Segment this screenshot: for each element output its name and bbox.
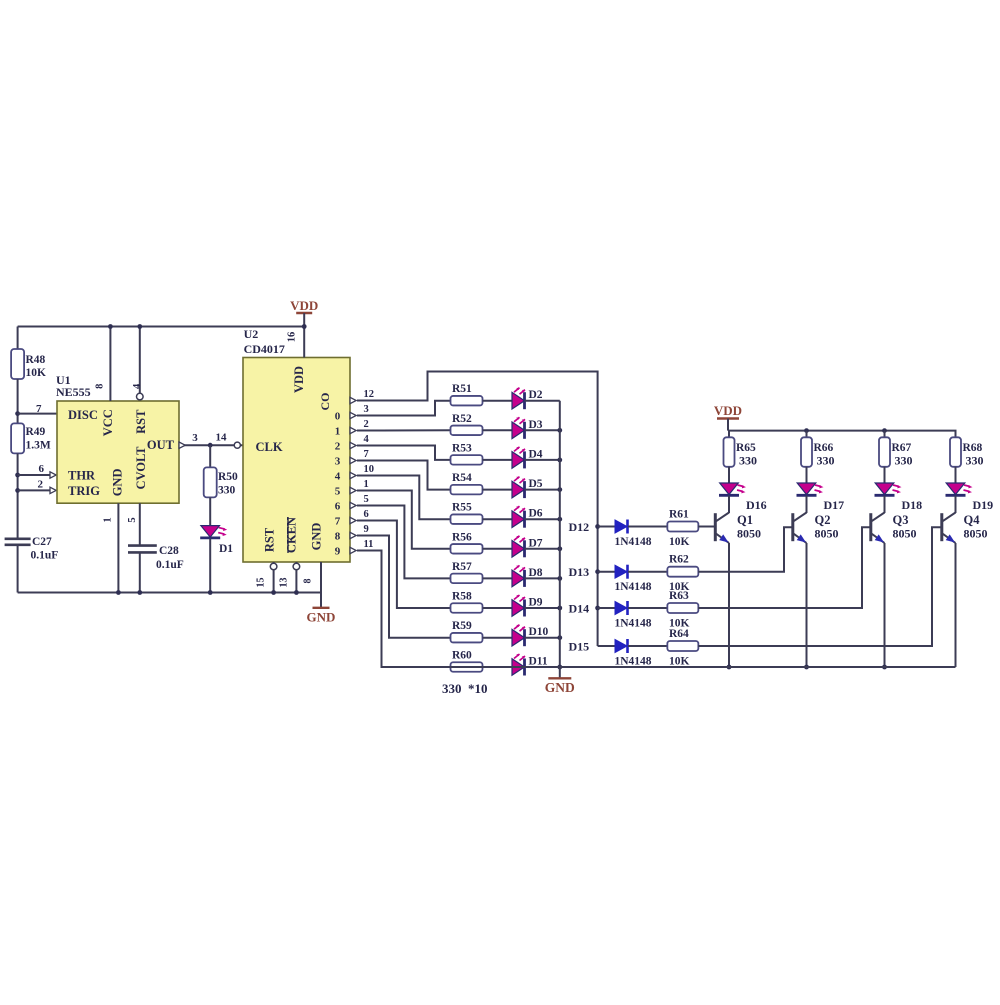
- resistor R64: [667, 641, 698, 651]
- wire rail to R66: [806, 431, 808, 438]
- input marker CLK bubble: [234, 442, 240, 448]
- wire VDD collector rail: [728, 431, 956, 438]
- svg-text:D11: D11: [529, 656, 548, 668]
- wire R57 to LED D8: [483, 577, 512, 579]
- svg-text:D13: D13: [569, 565, 590, 579]
- svg-text:CO: CO: [318, 393, 332, 411]
- transistor Q4 8050: [940, 513, 943, 541]
- svg-text:CKEN: CKEN: [285, 517, 299, 553]
- LED D1: [201, 526, 220, 538]
- svg-text:D5: D5: [529, 478, 543, 490]
- junction GND pin1 rail: [116, 590, 121, 595]
- wire R62 to Q2 base: [698, 527, 793, 572]
- svg-text:330 *10: 330 *10: [442, 681, 488, 696]
- input marker CLK arrow: [244, 442, 250, 449]
- resistor R68: [950, 437, 961, 467]
- svg-text:5: 5: [364, 494, 369, 505]
- resistor R48: [11, 349, 24, 379]
- svg-text:D14: D14: [569, 602, 590, 616]
- wire D1 to ground rail: [209, 539, 211, 593]
- svg-text:D19: D19: [973, 498, 994, 512]
- wire R65 to LED D16: [728, 467, 730, 483]
- wire left rail upper segment: [17, 327, 19, 350]
- junction D7 bus: [557, 546, 562, 551]
- wire bus to diode D12: [598, 526, 615, 528]
- svg-text:R59: R59: [452, 620, 472, 632]
- output marker U2 row 6: [350, 487, 356, 493]
- svg-text:THR: THR: [68, 469, 96, 483]
- junction emitter Q2 rail: [804, 665, 809, 670]
- svg-text:3: 3: [364, 404, 369, 415]
- junction D4 bus: [557, 458, 562, 463]
- junction cathode bus bottom rail: [557, 665, 562, 670]
- svg-text:330: 330: [817, 454, 835, 468]
- resistor R54: [451, 485, 483, 495]
- wire R50 to D1: [209, 497, 211, 525]
- svg-text:1N4148: 1N4148: [615, 656, 652, 668]
- wire RST pin 4 to rail: [139, 327, 141, 394]
- svg-text:NE555: NE555: [56, 385, 91, 399]
- resistor R57: [451, 574, 483, 584]
- resistor R61: [667, 522, 698, 532]
- output marker U2 row 2: [350, 427, 356, 433]
- svg-text:5: 5: [335, 485, 341, 497]
- wire rail to R67: [884, 431, 886, 438]
- wire D3 to cathode bus: [525, 429, 560, 431]
- output marker U2 row 10: [350, 547, 356, 553]
- wire R61 to Q1 base: [698, 526, 715, 528]
- wire diode to R61: [628, 526, 668, 528]
- junction D1 ground: [208, 590, 213, 595]
- svg-text:10K: 10K: [26, 367, 47, 379]
- junction RST rail: [137, 324, 142, 329]
- svg-text:VDD: VDD: [292, 366, 306, 393]
- svg-text:0.1uF: 0.1uF: [31, 550, 59, 562]
- resistor R65: [724, 437, 735, 467]
- svg-text:7: 7: [36, 403, 42, 415]
- wire CO to diode bus: [357, 372, 598, 527]
- svg-text:R61: R61: [669, 509, 689, 521]
- svg-text:15: 15: [256, 578, 267, 588]
- LED D6: [512, 511, 525, 528]
- svg-text:10: 10: [364, 464, 375, 475]
- resistor R51: [451, 396, 483, 406]
- svg-text:R58: R58: [452, 591, 472, 603]
- svg-text:D4: D4: [529, 448, 543, 460]
- junction emitter Q3 rail: [882, 665, 887, 670]
- capacitor C28: [128, 544, 157, 547]
- wire R68 to LED D19: [955, 467, 957, 483]
- svg-text:Q2: Q2: [815, 513, 831, 527]
- wire VCC pin 8 to rail: [109, 327, 111, 402]
- junction VCC rail: [108, 324, 113, 329]
- resistor R50: [204, 467, 217, 497]
- wire CVOLT pin 5 to C28: [139, 503, 141, 545]
- output marker U2 row 8: [350, 517, 356, 523]
- wire C27 to ground rail: [17, 545, 19, 593]
- junction C28 rail: [137, 590, 142, 595]
- diode D14 1N4148: [615, 602, 627, 615]
- transistor Q3 8050: [869, 513, 872, 541]
- svg-text:330: 330: [895, 454, 913, 468]
- junction bus D13: [595, 569, 600, 574]
- input marker TRIG: [50, 487, 56, 493]
- wire bottom ground rail: [18, 592, 321, 594]
- svg-text:8050: 8050: [893, 527, 917, 541]
- wire LED to Q2 collector: [806, 496, 808, 513]
- svg-text:5: 5: [127, 517, 138, 522]
- svg-text:D1: D1: [219, 543, 233, 555]
- wire R53 to LED D4: [483, 459, 512, 461]
- wire U2 output 8 to R59: [357, 536, 450, 638]
- wire R63 to Q3 base: [698, 527, 871, 608]
- resistor R49: [11, 423, 24, 453]
- wire R66 to LED D17: [806, 467, 808, 483]
- svg-text:R68: R68: [963, 442, 983, 454]
- svg-text:D16: D16: [746, 498, 767, 512]
- svg-text:2: 2: [38, 479, 44, 491]
- wire R55 to LED D6: [483, 518, 512, 520]
- wire D2 to cathode bus: [525, 400, 560, 402]
- svg-text:1.3M: 1.3M: [26, 440, 51, 452]
- LED D18: [875, 483, 894, 495]
- junction rail R66: [804, 428, 809, 433]
- svg-text:11: 11: [364, 539, 374, 550]
- LED D17: [797, 483, 816, 495]
- svg-text:2: 2: [335, 440, 341, 452]
- bubble RST pin 4: [137, 393, 144, 400]
- node junction THR: [15, 473, 20, 478]
- svg-text:RST: RST: [134, 409, 148, 434]
- resistor R58: [451, 603, 483, 613]
- transistor Q2 8050: [791, 513, 794, 541]
- wire Q3 emitter to ground rail: [884, 543, 886, 667]
- svg-text:0: 0: [335, 410, 341, 422]
- output marker U2 row 5: [350, 472, 356, 478]
- wire bottom emitter rail: [382, 666, 956, 668]
- svg-text:CD4017: CD4017: [244, 342, 285, 356]
- LED D3: [512, 422, 525, 439]
- svg-text:R56: R56: [452, 531, 472, 543]
- bubble CKEN pin13: [293, 563, 300, 570]
- junction CKEN rail: [294, 590, 299, 595]
- wire LED to Q3 collector: [884, 496, 886, 513]
- svg-text:8050: 8050: [737, 527, 761, 541]
- svg-text:10K: 10K: [669, 656, 690, 668]
- svg-text:OUT: OUT: [147, 438, 175, 452]
- wire rail to R68: [955, 431, 957, 438]
- resistor R60: [451, 662, 483, 672]
- svg-text:1: 1: [364, 479, 369, 490]
- svg-text:9: 9: [335, 545, 341, 557]
- svg-text:R63: R63: [669, 590, 689, 602]
- junction D5 bus: [557, 487, 562, 492]
- wire R60 to LED D11: [483, 666, 512, 668]
- resistor R56: [451, 544, 483, 554]
- wire Q2 emitter to ground rail: [806, 543, 808, 667]
- LED D8: [512, 570, 525, 587]
- counter U2 CD4017 body: [243, 358, 350, 563]
- input marker THR: [50, 472, 56, 478]
- junction D6 bus: [557, 517, 562, 522]
- wire bus to diode D15: [598, 645, 615, 647]
- wire D9 to cathode bus: [525, 607, 560, 609]
- svg-text:13: 13: [279, 578, 290, 588]
- svg-text:R60: R60: [452, 650, 472, 662]
- wire diode to R64: [628, 645, 668, 647]
- svg-text:330: 330: [739, 454, 757, 468]
- svg-text:7: 7: [335, 515, 341, 527]
- wire GND pin 1: [117, 503, 119, 592]
- svg-text:R49: R49: [26, 426, 46, 438]
- wire D10 to cathode bus: [525, 637, 560, 639]
- output marker U2 row 4: [350, 457, 356, 463]
- svg-text:D7: D7: [529, 537, 543, 549]
- LED D10: [512, 629, 525, 646]
- svg-text:4: 4: [364, 434, 370, 445]
- wire C28 to ground rail: [139, 552, 141, 592]
- wire THR pin 6: [18, 474, 50, 476]
- svg-text:VCC: VCC: [101, 409, 115, 436]
- wire U2 output 4 to R55: [357, 476, 450, 520]
- wire R48 to node DISC: [17, 379, 19, 423]
- LED D9: [512, 600, 525, 617]
- svg-text:D6: D6: [529, 508, 543, 520]
- svg-text:GND: GND: [310, 523, 324, 551]
- LED D4: [512, 452, 525, 469]
- LED D16: [720, 483, 739, 495]
- svg-text:16: 16: [287, 332, 298, 343]
- svg-text:D2: D2: [529, 389, 543, 401]
- junction emitter Q1 rail: [727, 665, 732, 670]
- junction D10 bus: [557, 635, 562, 640]
- wire bus to diode D14: [598, 607, 615, 609]
- wire Q1 emitter to ground rail: [728, 543, 730, 667]
- wire R49 to C27: [17, 453, 19, 538]
- svg-text:D12: D12: [569, 520, 590, 534]
- svg-text:D18: D18: [902, 498, 923, 512]
- svg-text:8: 8: [303, 579, 314, 584]
- svg-text:0.1uF: 0.1uF: [156, 559, 184, 571]
- junction bus D14: [595, 606, 600, 611]
- svg-text:4: 4: [335, 470, 341, 482]
- svg-text:1N4148: 1N4148: [615, 581, 652, 593]
- svg-text:Q3: Q3: [893, 513, 909, 527]
- svg-text:1: 1: [103, 517, 114, 522]
- svg-text:6: 6: [39, 463, 45, 475]
- svg-text:9: 9: [364, 524, 369, 535]
- LED D5: [512, 481, 525, 498]
- output marker U2 row 7: [350, 502, 356, 508]
- junction D8 bus: [557, 576, 562, 581]
- wire D4 to cathode bus: [525, 459, 560, 461]
- svg-text:3: 3: [192, 432, 198, 444]
- junction bus D12: [595, 524, 600, 529]
- node junction pin7: [15, 411, 20, 416]
- output marker OUT: [179, 442, 185, 448]
- wire TRIG pin 2: [18, 489, 50, 491]
- svg-text:R48: R48: [26, 354, 46, 366]
- svg-text:R53: R53: [452, 442, 472, 454]
- wire R51 to LED D2: [483, 400, 512, 402]
- junction D3 bus: [557, 428, 562, 433]
- wire R58 to LED D9: [483, 607, 512, 609]
- wire OUT pin3 to CLK pin14: [179, 444, 243, 446]
- wire R54 to LED D5: [483, 489, 512, 491]
- wire U2 output 0 to R51: [357, 401, 450, 416]
- wire D5 to cathode bus: [525, 489, 560, 491]
- svg-text:R66: R66: [814, 442, 834, 454]
- svg-text:GND: GND: [111, 469, 125, 497]
- svg-text:U2: U2: [244, 327, 259, 341]
- wire diode to R63: [628, 607, 668, 609]
- svg-text:10K: 10K: [669, 536, 690, 548]
- timer IC U1 NE555 body: [57, 401, 179, 503]
- LED D7: [512, 541, 525, 558]
- svg-text:R54: R54: [452, 472, 472, 484]
- svg-text:8050: 8050: [964, 527, 988, 541]
- resistor R63: [667, 603, 698, 613]
- wire top supply rail: [18, 326, 305, 328]
- svg-text:12: 12: [364, 389, 375, 400]
- wire R67 to LED D18: [884, 467, 886, 483]
- wire R59 to LED D10: [483, 637, 512, 639]
- svg-text:8: 8: [94, 384, 105, 389]
- wire D7 to cathode bus: [525, 548, 560, 550]
- wire GND pin8 stem: [320, 562, 322, 593]
- wire D8 to cathode bus: [525, 577, 560, 579]
- svg-text:D8: D8: [529, 567, 543, 579]
- wire R56 to LED D7: [483, 548, 512, 550]
- svg-text:R64: R64: [669, 628, 689, 640]
- svg-text:R67: R67: [892, 442, 912, 454]
- svg-text:8050: 8050: [815, 527, 839, 541]
- svg-text:D3: D3: [529, 419, 543, 431]
- wire RST pin15 stem: [273, 562, 275, 593]
- svg-text:D9: D9: [529, 597, 543, 609]
- svg-text:R62: R62: [669, 554, 689, 566]
- svg-text:CLK: CLK: [256, 440, 283, 454]
- svg-text:Q1: Q1: [737, 513, 753, 527]
- resistor R67: [879, 437, 890, 467]
- ground symbol LED bus: [559, 667, 561, 678]
- LED D19: [946, 483, 965, 495]
- ground symbol U2: [320, 593, 322, 608]
- svg-text:7: 7: [364, 449, 369, 460]
- resistor R62: [667, 567, 698, 577]
- svg-text:TRIG: TRIG: [68, 484, 100, 498]
- wire rail to R65: [728, 431, 730, 438]
- wire LED to Q4 collector: [955, 496, 957, 513]
- wire diode to R62: [628, 571, 668, 573]
- output marker U2 row 1: [350, 412, 356, 418]
- transistor Q1 8050: [714, 513, 717, 541]
- resistor R53: [451, 455, 483, 465]
- junction VDD rail: [302, 324, 307, 329]
- node junction TRIG: [15, 488, 20, 493]
- svg-text:8: 8: [335, 530, 341, 542]
- svg-text:R57: R57: [452, 561, 472, 573]
- wire DISC pin 7: [18, 413, 57, 415]
- svg-text:330: 330: [966, 454, 984, 468]
- svg-text:330: 330: [218, 485, 236, 497]
- output marker U2 row 3: [350, 442, 356, 448]
- junction D9 bus: [557, 606, 562, 611]
- wire U2 output 2 to R53: [357, 446, 450, 460]
- svg-text:R55: R55: [452, 502, 472, 514]
- wire LED to Q1 collector: [728, 496, 730, 513]
- svg-text:D10: D10: [529, 626, 549, 638]
- svg-text:R51: R51: [452, 383, 472, 395]
- svg-text:14: 14: [216, 432, 228, 444]
- svg-text:D17: D17: [824, 498, 845, 512]
- wire CKEN pin13 stem: [295, 562, 297, 593]
- svg-text:1N4148: 1N4148: [615, 618, 652, 630]
- svg-text:R65: R65: [736, 442, 756, 454]
- svg-text:2: 2: [364, 419, 369, 430]
- svg-text:3: 3: [335, 455, 341, 467]
- wire U2 output 5 to R56: [357, 491, 450, 549]
- wire LED cathode bus: [559, 401, 561, 667]
- wire R64 to Q4 base: [698, 527, 942, 646]
- wire OUT to R50: [209, 445, 211, 468]
- resistor R66: [801, 437, 812, 467]
- svg-text:GND: GND: [545, 680, 575, 695]
- wire U2 output 1 to R52: [357, 429, 450, 431]
- diode D15 1N4148: [615, 640, 627, 653]
- svg-text:GND: GND: [307, 610, 336, 625]
- wire U2 output 7 to R58: [357, 521, 450, 609]
- svg-text:Q4: Q4: [964, 513, 981, 527]
- svg-text:C28: C28: [159, 545, 179, 557]
- svg-text:RST: RST: [263, 527, 277, 552]
- wire D11 to cathode bus: [525, 666, 560, 668]
- resistor R59: [451, 633, 483, 643]
- capacitor C27: [5, 537, 31, 540]
- output marker U2 row 9: [350, 532, 356, 538]
- svg-text:CVOLT: CVOLT: [134, 446, 148, 490]
- svg-text:6: 6: [335, 500, 341, 512]
- svg-text:R52: R52: [452, 413, 472, 425]
- wire U2 output 9 to R60: [357, 551, 450, 668]
- svg-text:1: 1: [335, 425, 341, 437]
- wire D6 to cathode bus: [525, 518, 560, 520]
- wire Q4 emitter to ground rail: [955, 543, 957, 667]
- svg-text:4: 4: [132, 383, 143, 389]
- bubble RST pin15: [270, 563, 277, 570]
- wire diode feed bus: [597, 527, 599, 647]
- resistor R55: [451, 514, 483, 524]
- svg-text:VDD: VDD: [714, 403, 742, 418]
- svg-text:R50: R50: [218, 471, 238, 483]
- wire U2 output 6 to R57: [357, 506, 450, 579]
- diode D12 1N4148: [615, 520, 627, 533]
- svg-text:1N4148: 1N4148: [615, 536, 652, 548]
- wire bus to diode D13: [598, 571, 615, 573]
- svg-text:D15: D15: [569, 640, 590, 654]
- LED D2: [512, 392, 525, 409]
- diode D13 1N4148: [615, 565, 627, 578]
- wire U2 output 3 to R54: [357, 461, 450, 490]
- svg-text:VDD: VDD: [290, 298, 318, 313]
- svg-text:6: 6: [364, 509, 369, 520]
- LED D11: [512, 659, 525, 676]
- svg-text:DISC: DISC: [68, 408, 98, 422]
- junction R50 top: [208, 443, 213, 448]
- junction RST rail: [271, 590, 276, 595]
- junction rail R67: [882, 428, 887, 433]
- output marker U2 row 0: [350, 397, 356, 403]
